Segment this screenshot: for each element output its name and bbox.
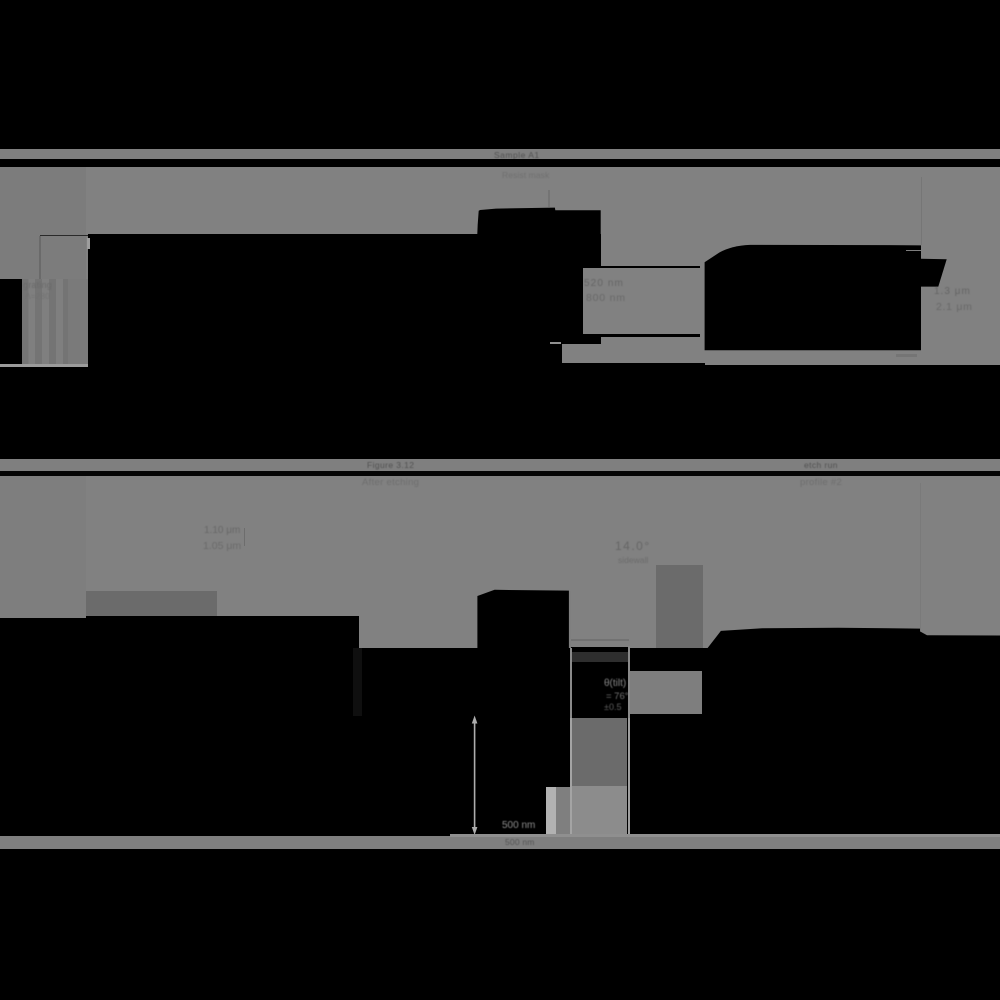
panel (b) light dash bbox=[550, 342, 561, 344]
panel (e) island label bbox=[604, 678, 626, 689]
middle page-gap gray bar bbox=[0, 459, 1000, 472]
panel (e) bright pillar right edge bbox=[628, 646, 630, 718]
row 1 gray background bbox=[0, 167, 1000, 365]
panel (d) label tick line bbox=[244, 528, 245, 546]
bottom bar caption bbox=[505, 837, 535, 847]
panel (d) bottom black block bbox=[0, 618, 86, 649]
row 2 black flood bbox=[0, 648, 1000, 836]
panel (d) label line 1 bbox=[204, 525, 240, 536]
panel (a) black under left column bbox=[0, 279, 88, 459]
panel (e) black ledge bbox=[571, 647, 629, 651]
panel (a) box top line bbox=[40, 235, 88, 237]
panel (b) faint line above mesa bbox=[548, 190, 549, 207]
panel (b) dimension label line 2 bbox=[586, 292, 626, 304]
panel (e) angle label line 2 bbox=[618, 555, 648, 565]
panel (b) gray shelf under mesa bbox=[562, 344, 601, 363]
panel (b) black tooth bbox=[583, 334, 601, 343]
panel (c) gray sliver notch bbox=[906, 250, 921, 252]
caption text on top bar bbox=[494, 150, 540, 160]
panel (d) label line 2 bbox=[203, 540, 241, 552]
bottom page-gap gray bar bbox=[0, 836, 1000, 849]
panel (e) gray patch left of base bbox=[556, 787, 570, 836]
panel (b) dimension label line 1 bbox=[584, 278, 624, 289]
panel (d) faint streak in flood bbox=[353, 648, 362, 716]
row 2 caption echo left bbox=[362, 477, 419, 488]
panel (d) dark gray mesa bbox=[86, 591, 218, 616]
bottom bar lighter top edge bbox=[450, 834, 1000, 837]
panel (c) label line 2 bbox=[936, 301, 973, 313]
row 2 caption echo right bbox=[800, 477, 842, 488]
panel (e) dark pillar column bbox=[572, 718, 628, 786]
panel (b) step line 1 bbox=[601, 266, 700, 268]
panel (b) resist mesa black polygon bbox=[460, 200, 610, 240]
panel (e) dark charcoal band bbox=[571, 652, 629, 662]
panel (b) step line 2 bbox=[601, 334, 700, 337]
middle bar caption right bbox=[804, 460, 838, 470]
panel (c) faint vertical line bbox=[921, 177, 922, 245]
scale label light on black bbox=[502, 820, 535, 831]
top page-gap gray bar bbox=[0, 149, 1000, 160]
black separator band under top bar bbox=[0, 159, 1000, 167]
panel (f) micrograph blob bbox=[700, 622, 1000, 838]
panel (c) micrograph blob bbox=[700, 240, 955, 355]
panel (e) faint ledge line bbox=[571, 639, 629, 642]
panel (c) faint dash under blob bbox=[896, 354, 917, 357]
grating top label mottling bbox=[23, 280, 52, 290]
row 2 left substrate column tone bbox=[0, 476, 86, 618]
middle bar caption left bbox=[367, 460, 414, 470]
row 1 black flood center bbox=[601, 363, 705, 459]
panel (e) bright pillar left edge bbox=[569, 591, 572, 648]
panel (c) label line 1 bbox=[934, 286, 971, 297]
panel (a) bright base line bbox=[0, 364, 88, 367]
panel (e) dark gray pillar block bbox=[656, 565, 703, 648]
panel (a) box left line bbox=[39, 236, 41, 279]
panel (e) black mesa left part bbox=[470, 585, 575, 650]
row 1 left substrate column (slightly darker) bbox=[0, 167, 86, 279]
panel (e) gray island with text bbox=[630, 671, 703, 714]
row 1 caption echo under separator bbox=[502, 170, 549, 180]
panel (f) faint column edge bbox=[920, 483, 921, 631]
panel (e) bright bar bbox=[546, 787, 556, 836]
row 1 black flood right bbox=[705, 365, 1000, 459]
panel (e) light pillar base bbox=[572, 786, 628, 836]
dimension arrow bbox=[471, 715, 479, 836]
grating stripes bbox=[22, 279, 29, 366]
panel (a) bright tick at sea edge bbox=[87, 238, 89, 249]
panel (e) angle label line 1 bbox=[615, 539, 651, 553]
row 2 gray background bbox=[0, 476, 1000, 649]
middle black separator line bbox=[0, 471, 1000, 476]
panel (a) black sea region bbox=[88, 234, 601, 459]
panel (b) gray notch right of mesa bbox=[583, 268, 601, 334]
panel (a) striped grating block bbox=[22, 279, 88, 366]
